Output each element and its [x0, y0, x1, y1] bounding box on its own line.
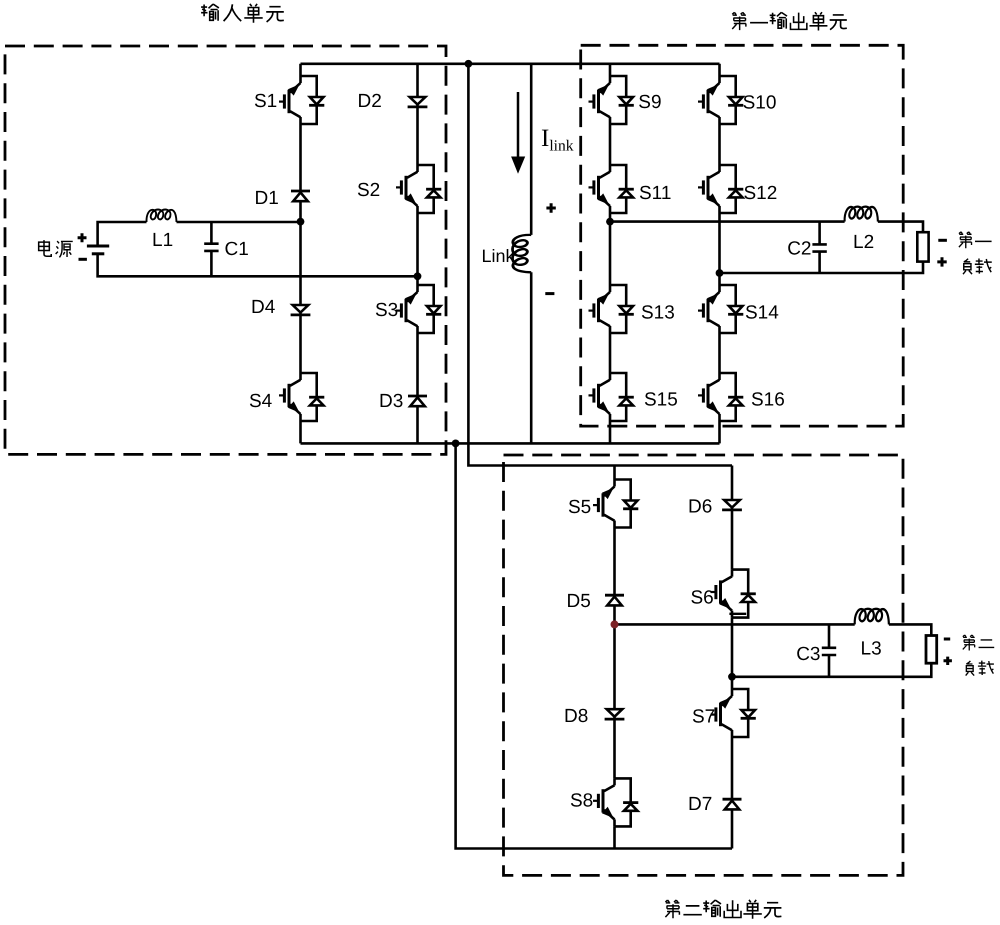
transistor S2 [396, 165, 441, 213]
label 输入单元 title [201, 4, 284, 23]
svg-text:D1: D1 [255, 188, 279, 209]
svg-text:Link: Link [482, 246, 516, 266]
diode D8 [605, 709, 625, 719]
svg-text:C3: C3 [796, 644, 820, 665]
wire bottom rail [301, 442, 720, 445]
transistor S11 [589, 165, 634, 213]
diode D5 [605, 595, 624, 605]
svg-text:D3: D3 [379, 391, 403, 412]
svg-text:S16: S16 [751, 390, 785, 411]
svg-text:D7: D7 [688, 794, 712, 815]
transistor S10 [698, 76, 743, 124]
svg-text:D4: D4 [251, 297, 276, 318]
label 第一负载 load1 [959, 232, 992, 274]
wire C1 branch [210, 222, 213, 276]
wire input left leg [299, 64, 302, 444]
capacitor C2 [812, 244, 826, 251]
svg-text:S12: S12 [744, 183, 778, 204]
label 第二负载 load2 [963, 635, 994, 676]
inductor L2 [845, 207, 878, 222]
plus sign source [78, 233, 87, 242]
load 2 resistor [926, 636, 937, 664]
svg-text:S1: S1 [254, 91, 277, 112]
wire out2 right leg [731, 466, 734, 849]
wire top rail [301, 62, 720, 65]
svg-text:S14: S14 [745, 303, 779, 324]
label 第二输出单元 title [665, 900, 781, 919]
svg-text:D8: D8 [564, 706, 588, 727]
extra emitter line S6 [729, 613, 746, 615]
transistor S14 [698, 285, 743, 333]
wire out2 lower output [732, 663, 931, 677]
svg-text:S9: S9 [638, 92, 661, 113]
svg-text:S2: S2 [357, 180, 380, 201]
dashed box input unit [5, 46, 446, 454]
wire out1 upper output [610, 222, 923, 233]
plus sign load2 [944, 657, 952, 665]
wire C3 branch [828, 624, 831, 676]
wire source top [98, 222, 301, 246]
transistor S13 [589, 285, 634, 333]
transistor S15 [589, 373, 634, 421]
wire node B drop [468, 64, 732, 466]
diode D1 [291, 191, 310, 201]
svg-text:D2: D2 [358, 91, 382, 112]
inductor Link [513, 235, 532, 272]
transistor S8 [593, 778, 638, 826]
arrow I_link [517, 92, 520, 157]
plus sign link [546, 203, 555, 212]
wire out2 upper output [615, 624, 932, 635]
svg-text:S4: S4 [249, 391, 273, 412]
label 电源 source [39, 240, 73, 257]
wire C2 branch [818, 222, 821, 273]
node top rail [465, 60, 473, 68]
diode D6 [722, 500, 742, 510]
transistor S4 [279, 373, 324, 421]
svg-text:S15: S15 [644, 390, 678, 411]
svg-text:C2: C2 [787, 239, 811, 260]
transistor S16 [698, 373, 743, 421]
wire link branch [530, 64, 533, 444]
wire out2 left leg [613, 466, 616, 849]
minus sign load2 [944, 638, 950, 641]
wire out1 lower output [720, 262, 924, 273]
diode D4 [291, 305, 311, 315]
minus sign source [79, 258, 87, 261]
svg-text:S6: S6 [691, 588, 714, 609]
plus sign load1 [937, 257, 946, 266]
node bottom rail [452, 440, 460, 448]
label 第一输出单元 title [732, 12, 847, 30]
svg-text:S13: S13 [641, 303, 675, 324]
wire node A drop [456, 443, 732, 848]
transistor S7 [711, 689, 756, 737]
diode D2 [408, 97, 428, 107]
transistor S9 [589, 76, 634, 124]
svg-text:C1: C1 [225, 239, 249, 260]
transistor S3 [396, 285, 441, 333]
inductor L1 [146, 210, 176, 222]
svg-text:L2: L2 [853, 232, 874, 253]
svg-text:L1: L1 [152, 230, 173, 251]
svg-text:D6: D6 [688, 497, 712, 518]
capacitor C1 [204, 244, 218, 251]
load 1 resistor [917, 232, 928, 261]
node out1 right [716, 269, 724, 277]
capacitor C3 [822, 648, 836, 655]
svg-text:S8: S8 [570, 791, 593, 812]
node red [611, 620, 619, 628]
svg-text:S7: S7 [692, 707, 715, 728]
diode D3 [408, 396, 427, 406]
wire out1 right leg [718, 64, 721, 444]
svg-text:S5: S5 [568, 497, 591, 518]
wire out1 left leg [609, 64, 612, 444]
dashed box first output unit [581, 45, 904, 426]
battery source [87, 246, 109, 254]
node out2 right [728, 673, 736, 681]
transistor S5 [593, 480, 638, 528]
node out1 left [606, 218, 614, 226]
svg-text:S3: S3 [375, 300, 398, 321]
svg-text:S10: S10 [743, 93, 777, 114]
wire input right leg [416, 64, 419, 444]
svg-text:L3: L3 [861, 639, 882, 660]
node input right [414, 272, 422, 280]
wire source bottom [98, 254, 418, 276]
svg-text:S11: S11 [639, 183, 671, 204]
transistor S12 [698, 165, 743, 213]
svg-text:D5: D5 [567, 591, 591, 612]
transistor S1 [279, 76, 324, 124]
inductor L3 [855, 609, 889, 625]
dashed box second output unit [504, 455, 904, 875]
node input left [297, 218, 305, 226]
minus sign load1 [938, 239, 947, 242]
minus sign link [545, 292, 554, 295]
transistor S6 [711, 570, 756, 618]
diode D7 [723, 799, 742, 809]
